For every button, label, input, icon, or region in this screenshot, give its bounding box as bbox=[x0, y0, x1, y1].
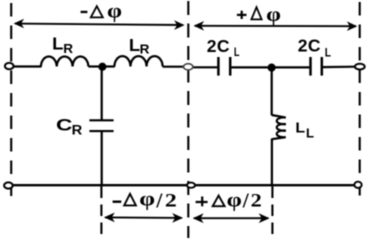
dimension arrow -delta-phi (top left) bbox=[14, 19, 185, 30]
capacitor CR bbox=[89, 120, 113, 131]
LL lead to bottom rail bbox=[271, 139, 273, 187]
svg-text:/: / bbox=[242, 189, 250, 213]
label 2CL2 bbox=[298, 36, 331, 60]
svg-text:R: R bbox=[72, 122, 83, 137]
label LR1 bbox=[52, 34, 74, 57]
dashed reference line below LL bbox=[271, 187, 273, 235]
svg-text:2C: 2C bbox=[207, 36, 230, 56]
wire inductor LR1 to node A bbox=[88, 65, 100, 67]
svg-text:R: R bbox=[140, 42, 150, 57]
svg-text:2: 2 bbox=[165, 191, 177, 212]
terminal circle bottom center bbox=[187, 183, 195, 188]
svg-text:/: / bbox=[155, 189, 163, 213]
label -delta-phi bbox=[81, 1, 122, 23]
svg-text:φ: φ bbox=[266, 4, 281, 26]
label +delta-phi bbox=[237, 4, 281, 26]
terminal circle top right bbox=[355, 64, 365, 70]
svg-text:L: L bbox=[325, 45, 331, 59]
svg-text:φ: φ bbox=[139, 189, 155, 211]
terminal circle bottom right bbox=[354, 182, 361, 188]
dashed reference line below CR bbox=[100, 187, 102, 235]
wire node A to LR2 bbox=[105, 65, 115, 67]
CR branch lead from node A bbox=[101, 67, 103, 120]
dimension arrow +delta-phi/2 (bottom right) bbox=[193, 213, 270, 223]
inductor LR1 bbox=[41, 56, 88, 66]
label 2CL1 bbox=[207, 36, 240, 59]
capacitor 2CL2 bbox=[311, 57, 322, 76]
terminal circle top center bbox=[184, 64, 193, 70]
terminal circle top left bbox=[5, 63, 14, 69]
svg-text:L: L bbox=[52, 34, 64, 54]
dashed reference line center bbox=[187, 1, 189, 238]
dashed reference line right bbox=[359, 2, 361, 197]
inductor LL (vertical coil) bbox=[272, 115, 286, 139]
node A (junction dot) bbox=[98, 63, 106, 71]
bottom rail wire bbox=[13, 184, 355, 186]
svg-text:R: R bbox=[63, 41, 73, 56]
terminal circle bottom left bbox=[4, 182, 13, 188]
node B (junction dot) bbox=[268, 64, 276, 72]
dimension arrow -delta-phi/2 (bottom left) bbox=[104, 213, 183, 223]
svg-text:L: L bbox=[234, 45, 240, 59]
svg-text:φ: φ bbox=[107, 1, 122, 23]
label CR bbox=[56, 115, 83, 137]
wire center terminal to C1 bbox=[193, 66, 218, 68]
dimension arrow +delta-phi (top right) bbox=[194, 21, 358, 31]
wire node B to C2 bbox=[274, 66, 309, 68]
label LR2 bbox=[129, 35, 150, 57]
svg-text:2: 2 bbox=[251, 191, 262, 212]
label LL bbox=[295, 121, 314, 141]
label -delta-phi/2 bbox=[113, 189, 177, 213]
top rail left wire segment bbox=[13, 65, 41, 67]
CR lead to bottom rail bbox=[101, 131, 103, 186]
svg-text:2C: 2C bbox=[298, 36, 321, 56]
LL branch lead from node B bbox=[271, 68, 273, 116]
capacitor 2CL1 bbox=[218, 57, 230, 76]
wire LR2 to center terminal bbox=[163, 66, 185, 68]
wire C2 to right terminal bbox=[323, 66, 355, 69]
wire C1 to node B bbox=[231, 66, 268, 68]
label +delta-phi/2 bbox=[196, 189, 262, 213]
svg-text:C: C bbox=[56, 115, 72, 134]
svg-text:L: L bbox=[295, 121, 305, 137]
dashed reference line left bbox=[10, 3, 12, 196]
svg-text:L: L bbox=[306, 126, 314, 141]
inductor LR2 bbox=[114, 56, 162, 66]
svg-text:φ: φ bbox=[227, 189, 242, 211]
